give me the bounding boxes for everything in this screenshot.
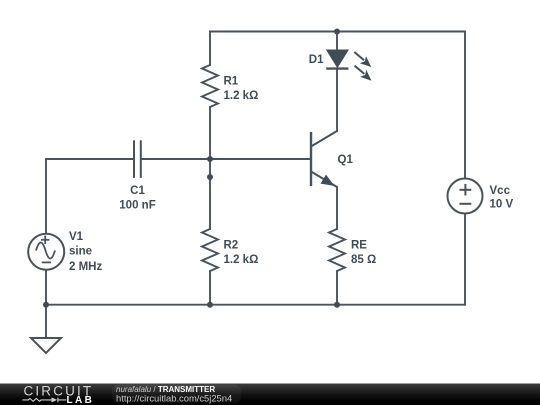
svg-text:V1: V1	[69, 231, 84, 243]
svg-text:RE: RE	[351, 240, 367, 252]
svg-text:1.2 kΩ: 1.2 kΩ	[224, 254, 259, 266]
wire V1 bottom lead	[45, 270, 47, 305]
wire ground lead	[45, 305, 47, 339]
svg-text:85 Ω: 85 Ω	[351, 254, 376, 266]
source V1	[28, 234, 64, 270]
svg-text:R2: R2	[224, 240, 239, 252]
wire LED top lead	[336, 32, 338, 51]
node junction dots	[43, 29, 340, 308]
svg-text:100 nF: 100 nF	[119, 200, 155, 212]
svg-text:sine: sine	[69, 246, 92, 258]
node mid junction	[207, 174, 213, 180]
svg-text:http://circuitlab.com/c5j25n4: http://circuitlab.com/c5j25n4	[116, 392, 232, 403]
wire R1 top lead	[209, 32, 211, 66]
svg-text:R1: R1	[224, 76, 239, 88]
svg-text:10 V: 10 V	[490, 199, 514, 211]
footer bar	[0, 384, 540, 405]
wire right rail upper	[464, 32, 466, 179]
resistor RE	[329, 229, 345, 271]
LED D1	[327, 50, 347, 67]
wire R1-R2 middle	[209, 107, 211, 229]
svg-text:C1: C1	[130, 185, 145, 197]
wire right rail lower	[464, 214, 466, 305]
svg-text:D1: D1	[309, 54, 324, 66]
LED D1 cathode bar	[326, 67, 348, 69]
wire LED to collector	[336, 69, 338, 131]
transistor Q1	[311, 131, 337, 187]
wire C1 to base	[141, 158, 310, 160]
svg-text:Vcc: Vcc	[490, 185, 511, 197]
svg-text:2 MHz: 2 MHz	[69, 261, 102, 273]
transistor Q1 emitter arrow	[321, 176, 333, 186]
svg-text:Q1: Q1	[338, 154, 354, 166]
wire bottom rail	[46, 304, 465, 306]
node RE bottom junction	[334, 302, 340, 308]
node base junction	[207, 156, 213, 162]
resistor R2	[202, 229, 218, 271]
wire R2 bottom lead	[209, 271, 211, 305]
wire input to C1	[46, 158, 134, 160]
wire V1 top lead	[45, 159, 47, 234]
node top LED junction	[334, 29, 340, 35]
svg-text:1.2 kΩ: 1.2 kΩ	[224, 90, 259, 102]
LED arrow 2	[355, 66, 372, 81]
LED arrow 1	[354, 52, 371, 67]
node ground junction	[43, 302, 49, 308]
node R2 bottom junction	[207, 302, 213, 308]
wire emitter to RE	[336, 187, 338, 229]
ground	[31, 338, 61, 353]
capacitor C1	[134, 140, 141, 178]
wire RE bottom lead	[336, 271, 338, 305]
source Vcc	[448, 179, 483, 214]
wire top rail	[210, 31, 465, 33]
svg-text:LAB: LAB	[67, 395, 95, 405]
resistor R1	[202, 65, 218, 107]
